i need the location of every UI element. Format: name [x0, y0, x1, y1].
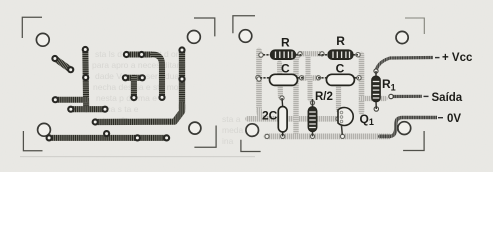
svg-text:ina: ina — [222, 136, 234, 146]
svg-text:2C: 2C — [262, 109, 278, 123]
svg-text:+ Vcc: + Vcc — [442, 52, 473, 64]
gray track GD vertical below C2 — [336, 82, 341, 110]
pad T2b — [82, 74, 89, 81]
pad T8c — [134, 134, 141, 141]
trace T4 horizontal — [71, 106, 105, 112]
component capacitor C (second) — [318, 74, 359, 85]
mounting hole top-left — [239, 30, 252, 43]
corner bracket bottom-right — [403, 131, 424, 151]
pad T6c — [158, 94, 165, 101]
pad H2 left — [265, 134, 269, 138]
pad R/2 top — [310, 101, 314, 105]
corner bracket top-right — [405, 18, 424, 34]
pad T7a — [178, 46, 185, 53]
pad H1 right — [336, 117, 340, 121]
pad Q1 bottom — [340, 134, 344, 138]
pad T5a — [122, 74, 129, 81]
corner bracket bottom-left — [23, 131, 42, 151]
gray track GE vertical right — [359, 55, 365, 113]
pad T4a — [67, 106, 74, 113]
pad T4b — [101, 106, 108, 113]
pad Ra left — [259, 53, 263, 57]
pad T8b — [103, 130, 110, 137]
gray track V2 stub above 2C — [280, 63, 281, 97]
trace T1 diagonal — [55, 59, 71, 70]
pads left panel — [46, 46, 186, 142]
component resistor R (second) — [318, 50, 358, 59]
dash before Saida — [424, 96, 429, 97]
svg-text:R: R — [281, 35, 290, 49]
gray track H1 horizontal — [248, 116, 338, 122]
pad T1b — [67, 66, 74, 73]
trace T2 vertical — [82, 50, 89, 110]
transistor Q1 emitter lead — [341, 126, 344, 135]
wire 0V curve — [389, 118, 437, 137]
svg-text:meda: meda — [222, 125, 244, 135]
mounting hole top-right — [396, 31, 408, 43]
pad R1 bottom — [374, 107, 378, 111]
pad 2C top — [280, 96, 284, 100]
component resistor R/2 vertical — [308, 99, 317, 136]
pad Ca right — [299, 76, 303, 80]
svg-text:R: R — [336, 34, 345, 48]
trace T5 tee — [125, 75, 142, 81]
wire Vcc — [376, 58, 433, 71]
pad Saida — [389, 94, 393, 98]
corner bracket top-left — [22, 17, 42, 38]
pad T7c — [92, 118, 99, 125]
trace T8 bottom horizontal — [49, 135, 167, 141]
svg-text:para apro a neces ditar s: para apro a neces ditar s — [92, 60, 186, 70]
mounting hole top-left — [36, 33, 49, 46]
corner bracket top-right — [194, 18, 215, 36]
mounting hole bottom-left — [38, 123, 51, 136]
svg-text:Saída: Saída — [432, 92, 463, 104]
faint bleed-through text from reverse page — [92, 49, 244, 146]
gray track R row link — [300, 51, 322, 56]
gray track stem to R/2 — [308, 78, 313, 99]
wire 0V junction blob — [380, 134, 389, 138]
pad Rb right — [356, 53, 360, 57]
pad T8a — [46, 134, 53, 141]
pad T7b — [178, 75, 185, 82]
dash before 0V — [438, 117, 443, 118]
mounting hole top-right — [188, 31, 201, 44]
corner bracket bottom-right — [194, 126, 216, 148]
pad GA mid — [257, 77, 261, 81]
wire Saida — [391, 95, 422, 98]
svg-text:nesta p da ma e: nesta p da ma e — [96, 93, 157, 103]
pad T1a — [51, 55, 58, 62]
pad T5c — [130, 94, 137, 101]
gray track H3 to Saida — [362, 96, 386, 101]
pad Rb left — [320, 52, 324, 56]
svg-text:C: C — [281, 62, 290, 76]
trace T7 long elbow — [179, 50, 185, 109]
transistor Q1 lead dots — [340, 111, 343, 114]
gray track C row bar — [302, 75, 319, 80]
mounting hole bottom-right — [189, 122, 201, 134]
pad Ca left — [256, 75, 260, 79]
gray track link R row to C row — [306, 57, 311, 78]
component resistor R (first) — [263, 50, 301, 59]
svg-text:C: C — [336, 62, 345, 76]
trace T3 horizontal — [55, 97, 86, 103]
dash before +Vcc — [435, 57, 440, 58]
component capacitor C (first) — [260, 74, 303, 85]
pad T2a — [82, 46, 89, 53]
component transistor Q1 — [338, 107, 353, 125]
svg-text:R/2: R/2 — [315, 91, 333, 103]
faint rule under left panel — [20, 156, 255, 157]
pad 2C bottom — [281, 134, 285, 138]
trace T6 elbow — [126, 51, 153, 57]
pad T5b — [139, 74, 146, 81]
pad T6a — [123, 51, 130, 58]
svg-text:sta a: sta a — [222, 114, 241, 124]
component resistor R1 vertical — [372, 71, 380, 109]
pad Cb right — [357, 76, 361, 80]
corner bracket top-left — [233, 16, 255, 34]
mounting hole bottom-right — [398, 122, 411, 135]
svg-text:0V: 0V — [447, 113, 461, 125]
component capacitor 2C vertical — [278, 98, 287, 136]
paper background — [0, 0, 493, 172]
gray track V1 elbow from R row down to bottom — [301, 51, 320, 56]
pad R/2 bottom — [310, 134, 314, 138]
pad T6b — [138, 51, 145, 58]
gray track H2 bottom horizontal — [267, 133, 390, 139]
mounting hole bottom-left — [246, 124, 259, 137]
pad T3a — [52, 96, 59, 103]
pad R1 top — [374, 69, 378, 73]
corner bracket bottom-left — [241, 140, 261, 152]
pad T8d — [163, 134, 170, 141]
pad Cb left — [316, 76, 320, 80]
gray track GA vertical with curve into H1 — [256, 51, 262, 113]
pad Ra right — [298, 52, 302, 56]
right panel pads (gray rings) — [256, 52, 393, 139]
